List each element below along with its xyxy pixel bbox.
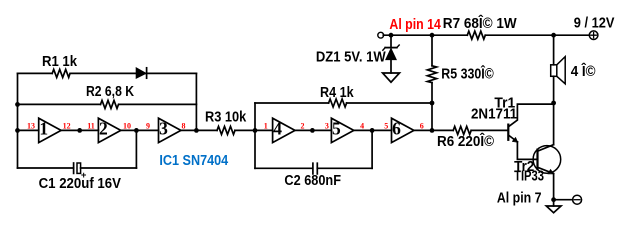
- node: R4 / R5: [430, 101, 435, 106]
- inverter gate 6: [392, 118, 414, 142]
- node: emitter / ground: [551, 197, 556, 202]
- transistor Tr2 emitter arrow: [548, 169, 554, 174]
- wire speaker top lead: [553, 35, 555, 65]
- wire R4 lead right: [347, 102, 432, 104]
- node: block2 input: [253, 128, 258, 133]
- svg-text:10: 10: [123, 121, 131, 130]
- svg-text:3: 3: [159, 119, 168, 139]
- resistor R4: [329, 99, 347, 107]
- transistor Tr2 circle: [533, 146, 561, 174]
- capacitor C1 plate left: [73, 163, 75, 173]
- svg-text:5: 5: [384, 121, 388, 130]
- transistor Tr2 base bar: [536, 150, 538, 170]
- resistor R7: [467, 31, 485, 39]
- speaker body: [551, 65, 557, 77]
- wire Tr2 collector vertical: [553, 103, 555, 145]
- wire gate5 out to gate6 in: [354, 129, 392, 131]
- wire R2 lead left: [18, 103, 101, 105]
- svg-text:2N1711: 2N1711: [471, 107, 517, 123]
- wire C1 bottom left lead: [18, 167, 74, 169]
- resistor R2: [101, 100, 119, 108]
- svg-text:C2 680nF: C2 680nF: [284, 173, 341, 189]
- svg-text:Al pin 14: Al pin 14: [389, 17, 441, 33]
- node: DZ1 top: [389, 33, 394, 38]
- svg-text:R6 220Î©: R6 220Î©: [437, 132, 494, 150]
- wire R5 bottom lead: [431, 83, 433, 131]
- inverter gate 2: [98, 118, 120, 142]
- terminal Al pin 14 (open circle): [378, 32, 384, 38]
- svg-text:3: 3: [325, 121, 329, 130]
- node: gate5 output / C2: [370, 128, 375, 133]
- svg-text:13: 13: [27, 121, 35, 130]
- node: gate1 output: [77, 128, 82, 133]
- inverter gate 5: [331, 118, 353, 142]
- wire R4 lead left: [255, 102, 329, 104]
- wire Tr1 emitter to Tr2 base: [517, 142, 536, 160]
- wire top R1 lead left: [18, 72, 53, 74]
- wire gate2 out to gate3 in: [121, 129, 159, 131]
- terminal Al pin 7 minus: [573, 195, 582, 204]
- svg-text:TIP33: TIP33: [514, 169, 544, 185]
- svg-text:9: 9: [146, 121, 150, 130]
- node: left rail / gate1 input: [15, 128, 20, 133]
- node: R5 / R7 top: [430, 33, 435, 38]
- node A: left rail / R2: [15, 102, 20, 107]
- zener DZ1 body: [386, 49, 396, 60]
- svg-text:9 / 12V: 9 / 12V: [574, 16, 615, 32]
- wire speaker bottom lead: [553, 76, 555, 103]
- wire top R1 lead right to right rail: [71, 72, 196, 74]
- wire C2 right vertical: [371, 130, 373, 168]
- ground (DZ1): [383, 73, 400, 82]
- inverter gate 1: [39, 118, 61, 142]
- node: gate4 output: [310, 128, 315, 133]
- wire R6 to Tr1 base: [471, 129, 507, 131]
- svg-text:4: 4: [273, 119, 282, 139]
- svg-text:2: 2: [301, 121, 305, 130]
- wire C1 bottom right lead: [81, 167, 137, 169]
- svg-text:Al pin 7: Al pin 7: [497, 191, 542, 207]
- svg-text:+: +: [81, 170, 87, 181]
- wire C2 bottom left lead: [255, 167, 312, 169]
- capacitor C2 plate right: [316, 163, 318, 174]
- svg-text:4 Î©: 4 Î©: [571, 62, 596, 80]
- zener DZ1 lead: [390, 35, 392, 48]
- svg-text:DZ1 5V. 1W: DZ1 5V. 1W: [316, 49, 386, 65]
- svg-text:R4 1k: R4 1k: [320, 85, 354, 101]
- resistor R3: [217, 126, 235, 134]
- wire gate4 out to gate5 in: [295, 129, 331, 131]
- ground (output): [546, 206, 561, 213]
- wire R3 to gate4 input: [235, 129, 273, 131]
- node: speaker bottom / collectors: [551, 101, 556, 106]
- wire Tr2 emitter vertical: [553, 174, 555, 200]
- svg-text:2: 2: [99, 119, 108, 139]
- capacitor C2 plate left: [312, 163, 314, 174]
- wire R2 lead right: [120, 103, 197, 105]
- transistor Tr1 base bar: [507, 125, 509, 140]
- resistor R6: [453, 126, 471, 134]
- transistor Tr2 collector: [539, 145, 554, 151]
- wire block2 left vertical: [254, 103, 256, 168]
- wire C1 right vertical: [135, 130, 137, 168]
- svg-text:R5 330Î©: R5 330Î©: [441, 65, 494, 83]
- wire left rail vertical: [17, 73, 19, 168]
- svg-text:1: 1: [39, 119, 48, 139]
- transistor Tr2 emitter: [539, 168, 554, 174]
- wire C2 bottom right lead: [317, 167, 372, 169]
- wire gate3 out to R3: [181, 129, 217, 131]
- node: gate6 output / R6: [430, 128, 435, 133]
- svg-text:IC1 SN7404: IC1 SN7404: [159, 153, 228, 169]
- inverter gate 3: [159, 118, 181, 142]
- terminal 9/12V plus: [589, 31, 598, 40]
- svg-text:4: 4: [360, 121, 364, 130]
- svg-text:6: 6: [392, 119, 401, 139]
- wire emitter node to minus terminal: [554, 199, 573, 201]
- wire ground stub: [553, 200, 555, 206]
- capacitor C1 plate right (box): [77, 163, 81, 173]
- node: speaker top: [551, 33, 556, 38]
- zener DZ1 cathode bar: [385, 47, 397, 49]
- wire gate6 out to R6: [414, 129, 453, 131]
- transistor Tr1 collector: [509, 104, 554, 126]
- node: gate2 output / C1: [134, 128, 139, 133]
- svg-text:12: 12: [63, 121, 71, 130]
- wire right rail vertical: [195, 73, 197, 130]
- transistor Tr1 emitter arrow: [512, 137, 518, 142]
- inverter gate 4: [273, 118, 295, 142]
- svg-text:5: 5: [332, 119, 341, 139]
- wire R7 to supply terminal: [485, 34, 589, 36]
- diode D1: [136, 68, 146, 78]
- node: gate3 output / feedback: [194, 128, 199, 133]
- resistor R5 top lead: [431, 35, 433, 66]
- wire gate1 out to gate2 in: [61, 129, 98, 131]
- svg-text:R1 1k: R1 1k: [42, 54, 78, 70]
- svg-text:6: 6: [420, 121, 424, 130]
- resistor R1: [52, 69, 70, 77]
- zener DZ1 anode lead: [390, 60, 392, 73]
- svg-text:R7 68Î© 1W: R7 68Î© 1W: [443, 14, 517, 32]
- wire row gate1 input: [18, 129, 39, 131]
- svg-text:1: 1: [264, 121, 268, 130]
- svg-text:11: 11: [87, 121, 95, 130]
- svg-text:8: 8: [182, 121, 186, 130]
- svg-text:R3 10k: R3 10k: [205, 109, 247, 125]
- speaker cone: [557, 57, 565, 84]
- svg-text:R2 6,8 K: R2 6,8 K: [86, 84, 134, 100]
- transistor Tr1 emitter: [509, 136, 517, 142]
- wire top rail to R7: [383, 34, 467, 36]
- resistor R5: [427, 66, 436, 83]
